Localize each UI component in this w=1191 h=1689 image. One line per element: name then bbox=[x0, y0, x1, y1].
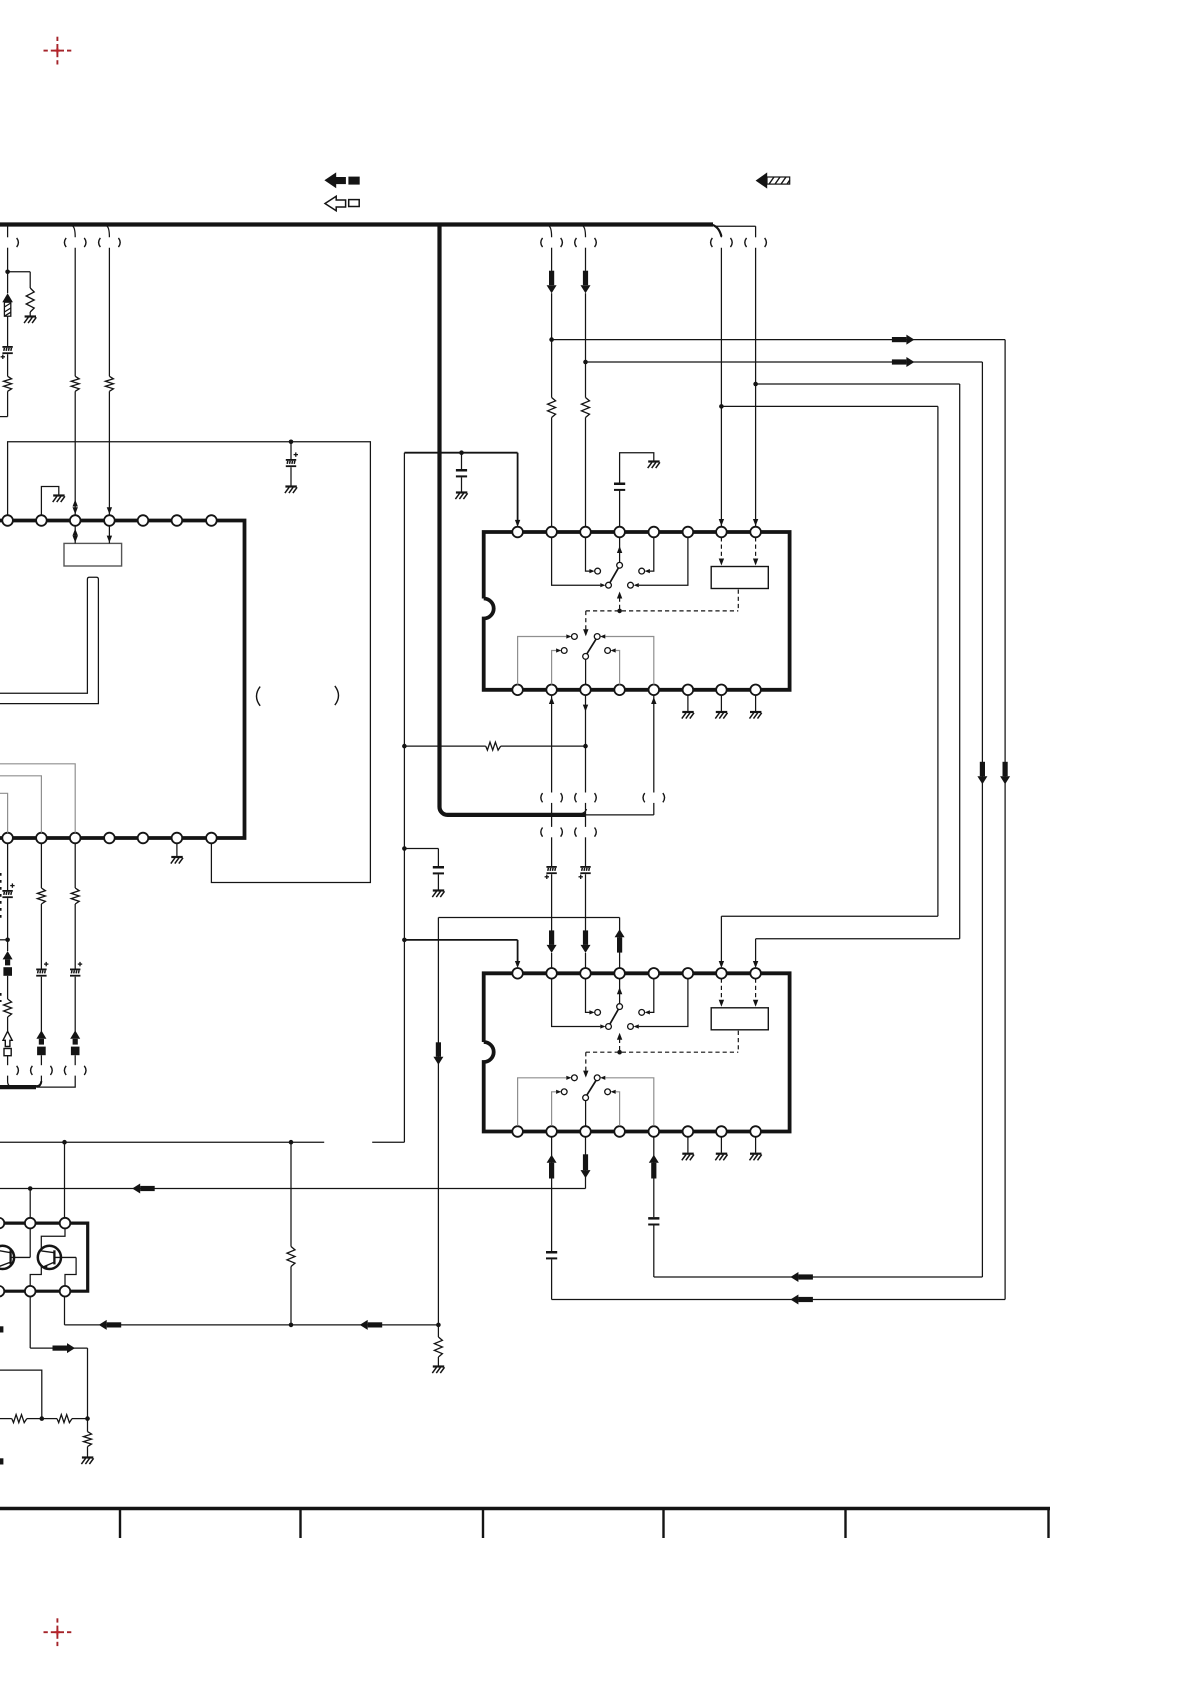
connector CN (wire x=585.5, top row) bbox=[575, 238, 597, 247]
wire (IC3 internal gray to pin2 bottom) bbox=[0, 776, 41, 833]
switch contact (IC1b left top) bbox=[572, 634, 578, 640]
signal arrow (solid, up) on wire x=7.6 bbox=[3, 940, 13, 976]
control dashed drop (IC1b select) bbox=[583, 611, 588, 636]
node (x=30.2 y=1188.5) bbox=[28, 1186, 33, 1191]
signal arrow (outline, up) on wire x=7.6 bbox=[3, 1031, 12, 1055]
node (y=452.7 cap tap) bbox=[459, 450, 464, 455]
wire (bus drop x=75.2) bbox=[73, 226, 75, 376]
wire (C3 to node) bbox=[7, 898, 9, 940]
switch contact (IC1b left mid) bbox=[561, 648, 567, 654]
connector CN (wire x=109.4, top row) bbox=[99, 238, 121, 247]
ground (below R15) bbox=[81, 1458, 93, 1465]
B+ bus (thick horizontal wire) bbox=[0, 224, 721, 236]
wire (router y=406.4) bbox=[721, 405, 938, 407]
wire (x=404.4 spine) bbox=[403, 453, 405, 1142]
wire (arrow to C1) bbox=[7, 316, 9, 346]
connector CN (x=585.5 row2) bbox=[575, 793, 597, 802]
wire (bus drop x=585.5) bbox=[583, 226, 585, 271]
switch common contact (IC2a) bbox=[606, 1024, 612, 1030]
switch contact (IC1a right upper) bbox=[639, 568, 645, 574]
wire (IC2 pin2b return) bbox=[547, 1137, 557, 1251]
wire (IC1 pin2b down) bbox=[549, 695, 554, 792]
ground (IC1 pin8b) bbox=[750, 712, 762, 719]
wire (IC1 pin3b down) bbox=[583, 695, 588, 792]
thin rail from bus end to IC1 pin5 wire bbox=[582, 809, 654, 815]
ground (below C10) bbox=[432, 891, 444, 898]
capacitor C7 bbox=[614, 483, 625, 491]
connector CN (x=551.6 row2) bbox=[541, 793, 563, 802]
resistor R6 bbox=[37, 888, 45, 904]
wire (C2 to ground) bbox=[290, 467, 292, 485]
wire (IC2 pin3b to switch common) bbox=[585, 1101, 587, 1126]
capacitor C5 (electrolytic) bbox=[70, 962, 82, 977]
wire (node to R14) bbox=[42, 1418, 57, 1420]
wire (bus drop x=721.4) bbox=[719, 234, 724, 527]
wire (drop to R12) bbox=[290, 1142, 292, 1246]
node (x=438.4 y=1324.9) bbox=[436, 1323, 441, 1328]
wire (IC1 pin5b to rail) bbox=[651, 695, 656, 815]
wire (IC1 pin3b to switch common) bbox=[585, 659, 587, 684]
wire (IC2 pin7b to ground) bbox=[720, 1137, 722, 1153]
wire (IC1 pin7b to ground) bbox=[720, 695, 722, 711]
wire (R7 to C5) bbox=[74, 904, 76, 969]
page-edge dashed line bbox=[0, 873, 2, 1002]
wire (router vertical x=937.9) bbox=[937, 406, 939, 916]
wire (x=585.5 row2-row3) bbox=[585, 803, 587, 827]
connector CN (wire x=75.2, bottom row) bbox=[64, 1066, 86, 1075]
wire (bus drop x=755.6) bbox=[753, 248, 758, 527]
connector CN (wire x=7.6, top row) bbox=[17, 238, 19, 247]
capacitor C9 (electrolytic) bbox=[579, 866, 591, 879]
node (x=87.5 y=1418.6) bbox=[85, 1416, 90, 1421]
wire (IC1 pin5b to contact, gray) bbox=[600, 634, 654, 684]
node (x=64.5 y=1142.2) bbox=[62, 1140, 67, 1145]
signal arrow (solid, up) on wire x=41.4 bbox=[36, 1030, 46, 1055]
wire (x=7.6 node to arrow) bbox=[7, 272, 9, 293]
IC2 body bbox=[484, 973, 790, 1131]
resistor R10 bbox=[486, 742, 501, 750]
wire (x=551.6 row2-row3) bbox=[551, 803, 553, 827]
connector CN (wire x=7.6, bottom row) bbox=[17, 1066, 19, 1075]
bus thin continuation to right connector wire bbox=[714, 226, 756, 237]
wire (R1 to ground) bbox=[29, 312, 31, 316]
switch lever (IC2b) bbox=[587, 1081, 596, 1096]
wire (C7 to ground via jog) bbox=[620, 453, 654, 483]
wire (router y=384) bbox=[756, 383, 960, 385]
connector CN (wire x=755.6, top row) bbox=[745, 238, 767, 247]
resistor R2 bbox=[4, 376, 12, 391]
wire (IC2 pin5b to contact, gray) bbox=[600, 1076, 654, 1126]
ground (below C2) bbox=[285, 487, 297, 494]
signal arrow (solid down) x=585.5 bbox=[581, 271, 591, 294]
title block border bbox=[0, 1509, 1050, 1539]
wire (R8 to pin2) bbox=[551, 418, 553, 527]
node (x=291 y=1142.2) bbox=[289, 1140, 294, 1145]
ground (below R11) bbox=[432, 1367, 444, 1374]
wire (IC2 pin2b to contact, gray) bbox=[552, 1090, 562, 1126]
switch common contact (IC1a) bbox=[606, 582, 612, 588]
wire (x=75.2 into rail) bbox=[37, 1076, 75, 1088]
ground (IC1 pin6b) bbox=[682, 712, 694, 719]
Q box bottom pins bbox=[0, 1286, 70, 1297]
wire (R14 to node2) bbox=[72, 1418, 88, 1420]
switch contact (IC1a left) bbox=[595, 568, 601, 574]
wire (router vertical x=959.7) bbox=[959, 384, 961, 939]
wire (x=7.6 to node) bbox=[7, 248, 9, 272]
page-edge mark (y=1461) bbox=[0, 1458, 3, 1464]
registration cross (top left) bbox=[44, 37, 72, 65]
wire (x=404.4 bottom stub) bbox=[372, 1141, 404, 1143]
connector CN (x=551.6 row3) bbox=[541, 828, 563, 837]
control dashed input (IC1 pin8) bbox=[753, 537, 758, 565]
wire (IC3 internal gray to pin3 bottom) bbox=[0, 764, 75, 833]
control dashed bus (IC1) bbox=[586, 590, 739, 611]
wire (R15 to ground) bbox=[87, 1447, 89, 1457]
node (x=404.4 y=848.5) bbox=[402, 846, 407, 851]
control node (IC1) bbox=[617, 609, 622, 614]
resistor R8 bbox=[548, 398, 556, 418]
switch contact (IC1b right mid) bbox=[605, 648, 611, 654]
control dashed line (IC2a select) bbox=[617, 1033, 622, 1052]
wire (node branch to page edge) bbox=[0, 1370, 42, 1419]
legend arrow (hatched) bbox=[756, 172, 790, 188]
connector CN (wire x=551.6, top row) bbox=[541, 238, 563, 247]
wire (IC2 pin8 feed) bbox=[753, 939, 960, 968]
wire (x=551.6 to IC1 pin2) bbox=[551, 293, 553, 397]
wire (drop to Q box pin2) bbox=[64, 1142, 66, 1218]
wire (Q pin1b to resistor node) bbox=[30, 1297, 87, 1419]
Q1 Q2 array body bbox=[0, 1223, 88, 1291]
wire (R9 to pin3) bbox=[585, 418, 587, 527]
legend arrow (outline) bbox=[325, 196, 359, 211]
switch contact (IC2a left) bbox=[595, 1010, 601, 1016]
wire (IC2 pin5 to contact) bbox=[645, 979, 654, 1015]
capacitor C11 bbox=[546, 1251, 557, 1259]
wire (rail y=1142.2) bbox=[0, 1141, 324, 1143]
wire (x=551.6 to C8) bbox=[551, 837, 553, 866]
wire (C6 to ground) bbox=[461, 477, 463, 491]
wire (R2 exit to page edge) bbox=[0, 391, 8, 416]
wire (IC2 pin2 to switch common) bbox=[552, 979, 606, 1029]
wire (tap to C10) bbox=[404, 849, 438, 867]
wire (C1 to R2) bbox=[7, 354, 9, 376]
wire (IC1 pin4 to switch throw) bbox=[617, 537, 622, 562]
registration cross (bottom left) bbox=[44, 1618, 72, 1646]
wire (router vertical x=982.4) bbox=[981, 362, 983, 1277]
wire (IC2 pin7 feed) bbox=[719, 916, 938, 968]
wire (to connector row 4b) bbox=[40, 1055, 42, 1065]
signal arrow (solid down) x=1005.1 bbox=[1000, 762, 1010, 785]
B+ rail stub (thick, bottom left) bbox=[0, 1081, 41, 1087]
wire (IC1 pin2b to contact, gray) bbox=[552, 648, 562, 684]
IC3 internal block (rectangle) bbox=[64, 543, 122, 566]
connector CN (x=653.8 row2) bbox=[643, 793, 665, 802]
wire (y=1324.9 link) bbox=[65, 1297, 439, 1330]
node (x=585.5 y=362) bbox=[583, 360, 588, 365]
signal arrow (solid down) x=438.4 bbox=[433, 1042, 443, 1065]
IC3 bottom pins bbox=[2, 833, 216, 844]
ground (IC3 pin6) bbox=[171, 857, 183, 864]
node (x=7.6 y=939.8) bbox=[5, 938, 10, 943]
wire (C5 to bold arrow) bbox=[74, 977, 76, 1032]
node (x=7.6 y=271.8) bbox=[5, 270, 10, 275]
wire (IC2 pin6b to ground) bbox=[687, 1137, 689, 1153]
wire (C11 to corner) bbox=[552, 1259, 1006, 1304]
switch lever (IC1a) bbox=[610, 568, 619, 583]
wire (drop to Q box pin1) bbox=[29, 1189, 31, 1218]
resistor R12 bbox=[287, 1247, 295, 1267]
wire (y=746.1 right segment) bbox=[501, 745, 586, 747]
wire (bus drop x=551.6) bbox=[549, 226, 551, 271]
switch contact (IC2b right mid) bbox=[605, 1089, 611, 1095]
resistor R15 bbox=[84, 1432, 92, 1447]
signal arrow (solid, up) on wire x=75.2 bbox=[70, 1030, 80, 1055]
wire (R6 to C4) bbox=[40, 904, 42, 969]
wire (IC1 pin1 feed y=452.7) bbox=[404, 453, 520, 527]
wire (R12 to y=1325) bbox=[290, 1267, 292, 1325]
wire (resistor chain left) bbox=[0, 1418, 12, 1420]
wire (to connector row 4c) bbox=[74, 1055, 76, 1065]
signal arrow (solid down) x=982.4 bbox=[977, 762, 987, 785]
capacitor C12 bbox=[648, 1217, 659, 1225]
wire (IC1 pin4b to contact, gray) bbox=[611, 648, 620, 684]
wire (router y=362) bbox=[586, 357, 983, 367]
wire (IC2 pin1 feed) bbox=[404, 940, 520, 968]
connector CN (wire x=721.4, top row) bbox=[711, 238, 733, 247]
wire (x=7.6 into rail) bbox=[8, 1076, 30, 1088]
ground (near IC1 pin5) bbox=[648, 462, 660, 469]
IC3 body bbox=[0, 521, 245, 839]
wire (IC1 pin4 cap riser) bbox=[619, 490, 621, 527]
ground (below C6) bbox=[455, 493, 467, 500]
wire (node2 to R15) bbox=[87, 1419, 89, 1432]
wire (IC2 pin4b to contact, gray) bbox=[611, 1090, 620, 1126]
wire (IC2 pin3 to contact) bbox=[586, 979, 595, 1015]
capacitor C4 (electrolytic) bbox=[36, 962, 48, 977]
capacitor C10 bbox=[433, 866, 444, 874]
wire (IC3 pin3 bottom to R7) bbox=[74, 843, 76, 888]
wire (IC3 pin4 to block) bbox=[107, 526, 112, 544]
wire (node to page edge) bbox=[0, 939, 8, 941]
wire (C9 to IC2 pin3) bbox=[581, 874, 591, 967]
control dashed drop (IC2b select) bbox=[583, 1052, 588, 1077]
resistor R1 bbox=[26, 288, 34, 312]
wire (IC1 pin8b to ground) bbox=[755, 695, 757, 711]
Q box top pins bbox=[0, 1218, 70, 1229]
switch contact (IC2b left mid) bbox=[561, 1089, 567, 1095]
ground (IC2 pin7b) bbox=[715, 1154, 727, 1161]
wire (IC3 internal gray to pin1 bottom) bbox=[0, 793, 8, 832]
connector CN (wire x=75.2, top row) bbox=[64, 238, 86, 247]
switch throw contact (IC1a top) bbox=[617, 562, 623, 568]
capacitor C1 (electrolytic) bbox=[1, 346, 13, 359]
wire (IC3 pin1 bottom to C3) bbox=[7, 843, 9, 890]
resistor R9 bbox=[582, 398, 590, 418]
wire (IC2 pin3b signal out) bbox=[0, 1137, 591, 1194]
wire (x=585.5 to IC1 pin3) bbox=[585, 293, 587, 397]
ground (IC2 pin6b) bbox=[682, 1154, 694, 1161]
IC1 body bbox=[484, 532, 790, 690]
switch common contact (IC1b) bbox=[583, 654, 589, 660]
capacitor C6 bbox=[456, 469, 467, 477]
node (x=551.6 y=339.6) bbox=[549, 337, 554, 342]
node (x=291 y=1324.9) bbox=[289, 1323, 294, 1328]
control dashed input (IC2 pin7) bbox=[719, 979, 724, 1007]
wire (branch to R1) bbox=[8, 272, 31, 288]
wire (IC3 pin6 bottom to ground) bbox=[176, 843, 178, 856]
switch common contact (IC2b) bbox=[583, 1095, 589, 1101]
wire (IC2 pin1b to contact, gray) bbox=[518, 1076, 572, 1126]
wire (router y=339.6) bbox=[552, 335, 1006, 345]
wire (C10 to ground) bbox=[437, 874, 439, 889]
switch contact (IC1a right) bbox=[628, 582, 634, 588]
connector ref parens (right of IC3) bbox=[257, 686, 339, 706]
wire (IC2 pin4 to switch throw) bbox=[617, 979, 622, 1004]
ground (IC3 pin2) bbox=[53, 496, 65, 503]
control dashed bus (IC2) bbox=[586, 1031, 739, 1052]
wire (bus drop x=109.4) bbox=[107, 226, 109, 376]
capacitor C3 (electrolytic) bbox=[2, 883, 14, 898]
wire (to R11) bbox=[437, 1325, 439, 1337]
wire (IC3 pin1 routing loop) bbox=[8, 442, 371, 883]
capacitor C2 (electrolytic) bbox=[286, 452, 298, 467]
switch throw contact (IC2b top) bbox=[594, 1075, 600, 1081]
wire (IC1 pin2 to switch common) bbox=[552, 537, 606, 587]
wire (R11 to ground) bbox=[437, 1357, 439, 1366]
legend arrow (solid, signal route) bbox=[324, 172, 359, 188]
transistor Q1 (cut by page edge) bbox=[0, 1228, 30, 1269]
wire (bus drop x=7.6 upper) bbox=[7, 227, 9, 238]
IC2 bottom pins bbox=[512, 1126, 761, 1137]
wire (x=41.4 into rail) bbox=[30, 1076, 41, 1088]
wire (arrow to R5) bbox=[7, 976, 9, 999]
wire (loop node to C2) bbox=[290, 442, 292, 459]
resistor R3 bbox=[71, 376, 79, 391]
wire (IC1 pin6b to ground) bbox=[687, 695, 689, 711]
wire (IC2 pin8b to ground) bbox=[755, 1137, 757, 1153]
resistor R14 bbox=[57, 1415, 72, 1423]
wire (IC3 internal hairpin) bbox=[0, 577, 98, 703]
IC2 top pins bbox=[512, 968, 761, 979]
wire (R3 to IC3 pin3, bidirectional) bbox=[73, 391, 78, 515]
wire (IC3 pin2 ground jog) bbox=[41, 487, 58, 516]
ground (IC2 pin8b) bbox=[750, 1154, 762, 1161]
control dashed input (IC2 pin8) bbox=[753, 979, 758, 1007]
signal arrow (solid down) x=551.6 bbox=[547, 271, 557, 294]
wire (tap to C6) bbox=[461, 453, 463, 469]
wire (y=746.1 left segment) bbox=[404, 745, 485, 747]
switch contact (IC2a right) bbox=[628, 1024, 634, 1030]
control block (IC2) bbox=[711, 1008, 768, 1030]
control dashed line (IC1a select) bbox=[617, 592, 622, 611]
IC1 top pins bbox=[512, 527, 761, 538]
node (x=404.4 y=746.1) bbox=[402, 744, 407, 749]
bus branch (thick vertical wire to lower IC) bbox=[440, 226, 586, 815]
wire (C8 to IC2 pin2) bbox=[547, 874, 557, 967]
node (x=721.4 y=406.4) bbox=[719, 404, 724, 409]
IC3 top pins bbox=[2, 515, 216, 526]
control block (IC1) bbox=[711, 567, 768, 589]
wire (IC1 pin3 to contact) bbox=[586, 537, 595, 573]
wire (to connector row 4) bbox=[7, 1056, 9, 1066]
switch contact (IC2a right upper) bbox=[639, 1010, 645, 1016]
switch contact (IC2b left top) bbox=[572, 1075, 578, 1081]
switch lever (IC1b) bbox=[587, 639, 596, 654]
node (x=755.6 y=384) bbox=[753, 382, 758, 387]
connector CN (wire x=41.4, bottom row) bbox=[31, 1066, 53, 1075]
resistor R11 bbox=[434, 1337, 442, 1357]
resistor R4 bbox=[105, 376, 113, 391]
wire (IC2 pin4 feed) bbox=[438, 918, 624, 1325]
page-edge mark (y=1329) bbox=[0, 1326, 3, 1332]
wire (R4 to IC3 pin4) bbox=[107, 391, 112, 515]
ground (below R1) bbox=[24, 317, 36, 324]
node (loop, x=291) bbox=[289, 440, 294, 445]
wire (IC2 pin6 to contact) bbox=[634, 979, 688, 1029]
node (x=585.5 y=746.1) bbox=[583, 744, 588, 749]
wire (R5 to outline arrow) bbox=[7, 1017, 9, 1031]
control dashed input (IC1 pin7) bbox=[719, 537, 724, 565]
connector CN (x=585.5 row3) bbox=[575, 828, 597, 837]
wire (IC1 pin6 to contact) bbox=[634, 537, 688, 587]
wire (R13 to node) bbox=[27, 1418, 42, 1420]
wire (IC1 pin5 to contact) bbox=[645, 537, 654, 573]
wire (IC3 pin3 to block, bidirectional) bbox=[73, 526, 78, 544]
wire (IC2 pin5b return) bbox=[649, 1137, 659, 1217]
ground (IC1 pin7b) bbox=[715, 712, 727, 719]
wire (C4 to bold arrow) bbox=[40, 977, 42, 1032]
wire (IC3 pin2 bottom to R6) bbox=[40, 843, 42, 888]
off-page arrow (hatched tail, up) bbox=[2, 293, 13, 316]
resistor R5 bbox=[4, 999, 12, 1017]
switch lever (IC2a) bbox=[610, 1009, 619, 1024]
switch throw contact (IC1b top) bbox=[594, 634, 600, 640]
node (x=41.8 y=1418.6) bbox=[40, 1416, 45, 1421]
capacitor C8 (electrolytic) bbox=[545, 866, 557, 879]
wire (x=585.5 to C9) bbox=[585, 837, 587, 866]
switch throw contact (IC2a top) bbox=[617, 1004, 623, 1010]
control node (IC2) bbox=[617, 1050, 622, 1055]
node (x=404.4 y=939.9) bbox=[402, 938, 407, 943]
wire (IC1 pin1b to contact, gray) bbox=[518, 634, 572, 684]
resistor R13 bbox=[12, 1415, 27, 1423]
wire (router vertical x=1005.1) bbox=[1004, 340, 1006, 1300]
wire (C12 to corner) bbox=[654, 1226, 983, 1283]
IC1 bottom pins bbox=[512, 685, 761, 696]
resistor R7 bbox=[71, 888, 79, 904]
transistor Q2 bbox=[30, 1228, 76, 1286]
